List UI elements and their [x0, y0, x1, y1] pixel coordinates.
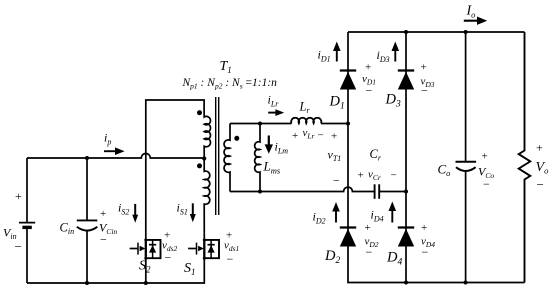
- svg-text:−: −: [15, 239, 22, 254]
- svg-text:iD4: iD4: [371, 208, 384, 224]
- arrow iD3: [392, 42, 400, 62]
- svg-text:Vo: Vo: [536, 160, 549, 176]
- svg-text:D2: D2: [324, 248, 340, 266]
- svg-text:D3: D3: [385, 92, 401, 110]
- svg-text:Cin: Cin: [60, 221, 75, 237]
- label vD1: [362, 62, 376, 98]
- arrow ip: [104, 147, 125, 155]
- svg-text:−: −: [391, 170, 397, 182]
- svg-text:S1: S1: [184, 261, 196, 277]
- diode D2: [340, 228, 356, 247]
- label VCo: [478, 151, 494, 192]
- transformer T1 primary winding Np2: [204, 159, 210, 240]
- wire top rail rectifier: [348, 31, 525, 33]
- label vCr: [358, 169, 397, 183]
- transformer core: [216, 97, 219, 215]
- node B (Cr / D3 / D4): [404, 190, 408, 194]
- diode D1: [340, 71, 356, 90]
- node Co bottom: [464, 281, 468, 285]
- node S2 source on rail: [144, 281, 148, 285]
- capacitor Co: [456, 32, 477, 283]
- node Cin bottom: [85, 281, 89, 285]
- wire bottom rail rectifier: [406, 282, 525, 284]
- svg-text:D1: D1: [329, 94, 345, 112]
- svg-text:iD1: iD1: [318, 48, 331, 64]
- node Lm top: [258, 122, 262, 126]
- svg-text:+: +: [365, 62, 371, 74]
- transformer T1 secondary winding Ns: [224, 124, 230, 192]
- label vD2: [365, 222, 379, 259]
- label vLr: [292, 127, 324, 142]
- wire S2 source: [145, 258, 147, 283]
- svg-text:vT1: vT1: [328, 148, 342, 164]
- svg-text:+: +: [482, 151, 488, 163]
- svg-text:Lr: Lr: [299, 100, 311, 116]
- svg-text:iD2: iD2: [313, 210, 326, 226]
- svg-text:−: −: [421, 84, 428, 98]
- arrow iD4: [389, 202, 397, 223]
- wire S2 drain / P1 top loop: [146, 100, 204, 240]
- wire Cr to D3-D4 column: [379, 191, 406, 193]
- arrow Io: [464, 17, 487, 25]
- svg-text:Lms: Lms: [263, 159, 281, 176]
- wire top input rail with hop over S2 column: [27, 154, 204, 159]
- transistor S2 (MOSFET): [130, 238, 161, 259]
- svg-text:−: −: [227, 252, 234, 266]
- svg-text:ip: ip: [104, 131, 111, 147]
- svg-text:−: −: [537, 177, 544, 192]
- svg-text:Co: Co: [438, 162, 451, 179]
- svg-text:+: +: [15, 189, 22, 203]
- label vds2: [162, 230, 178, 265]
- label VCin: [99, 208, 117, 247]
- polarity dot Np2: [197, 163, 202, 168]
- svg-text:iLm: iLm: [275, 140, 289, 156]
- arrow iLr: [268, 109, 284, 116]
- capacitor Cr: [375, 184, 380, 199]
- label vD4: [421, 222, 435, 259]
- svg-text:vLr: vLr: [303, 127, 315, 141]
- node center tap: [202, 156, 206, 160]
- svg-text:T1: T1: [220, 59, 232, 75]
- label Vin: [3, 189, 22, 254]
- svg-text:D4: D4: [386, 250, 402, 268]
- svg-text:+: +: [100, 208, 106, 220]
- svg-text:+: +: [536, 141, 543, 155]
- arrow iLm: [265, 136, 273, 154]
- label vds1: [224, 230, 239, 267]
- label Vo: [536, 141, 549, 193]
- node Cin top: [85, 156, 89, 160]
- load resistor Ro: [519, 32, 531, 283]
- svg-text:S2: S2: [139, 259, 151, 275]
- svg-text:+: +: [292, 130, 298, 142]
- node D4 bottom: [404, 281, 408, 285]
- inductor Lr: [291, 118, 321, 124]
- arrow iS1: [190, 203, 196, 222]
- arrow iD2: [332, 202, 340, 223]
- capacitor Cin: [77, 158, 98, 283]
- svg-text:+: +: [365, 222, 371, 234]
- svg-text:−: −: [165, 251, 172, 265]
- svg-text:+: +: [358, 170, 364, 182]
- svg-text:iS2: iS2: [118, 201, 129, 217]
- svg-text:iLr: iLr: [268, 93, 280, 109]
- wire D3-D4 column: [405, 32, 407, 283]
- svg-text:−: −: [366, 245, 373, 259]
- svg-text:+: +: [421, 222, 427, 234]
- wire secondary bottom with hop over D1-D2 column: [230, 187, 374, 191]
- wire D1-D2 column: [348, 32, 406, 283]
- svg-text:−: −: [366, 84, 373, 98]
- diode D4: [398, 228, 414, 247]
- arrow iD1: [333, 42, 341, 62]
- label vT1: [328, 131, 342, 188]
- transformer T1 primary winding Np1: [204, 112, 210, 159]
- label vD3: [421, 62, 435, 98]
- svg-text:−: −: [422, 245, 429, 259]
- svg-text:Cr: Cr: [370, 147, 382, 163]
- svg-text:+: +: [331, 131, 337, 143]
- svg-text:+: +: [421, 62, 427, 74]
- diode D3: [398, 71, 414, 90]
- wire Lr to node A: [321, 123, 348, 125]
- svg-text:vds1: vds1: [224, 240, 239, 254]
- svg-text:−: −: [318, 130, 324, 142]
- svg-text:Np1 : Np2 : Ns =1:1:n: Np1 : Np2 : Ns =1:1:n: [182, 77, 278, 91]
- wire bottom left rail: [27, 258, 204, 283]
- svg-text:−: −: [483, 177, 490, 191]
- svg-text:−: −: [333, 174, 340, 188]
- svg-text:Io: Io: [466, 4, 476, 20]
- svg-text:iD3: iD3: [377, 48, 390, 64]
- voltage source Vin: [19, 158, 35, 283]
- svg-text:iS1: iS1: [177, 201, 188, 217]
- svg-text:−: −: [100, 233, 107, 247]
- node A (Lr / D1 / D2): [346, 122, 350, 126]
- arrow iS2: [132, 204, 138, 223]
- transistor S1 (MOSFET): [188, 238, 219, 259]
- inductor Lm (magnetizing): [255, 124, 260, 192]
- node D3 top: [404, 30, 408, 34]
- svg-text:vCr: vCr: [368, 169, 381, 183]
- node Co top: [464, 30, 468, 34]
- wire secondary top to Lr: [230, 123, 292, 125]
- polarity dot Np1: [197, 110, 202, 115]
- polarity dot Ns: [234, 136, 239, 141]
- node Lm bottom: [258, 190, 262, 194]
